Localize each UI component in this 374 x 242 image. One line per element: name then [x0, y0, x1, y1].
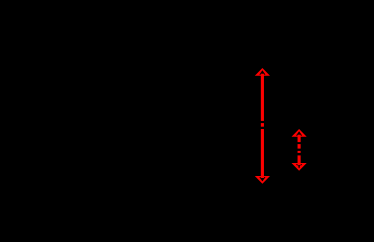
dimension arrow 2 (short, right)	[292, 129, 307, 171]
arrowhead bottom (down)	[292, 163, 307, 171]
wire: middle dash segment	[261, 123, 264, 127]
arrowhead top (up)	[255, 68, 270, 76]
red infill wedges inside bottom arrowhead	[296, 165, 302, 168]
arrowhead bottom (down)	[255, 176, 270, 184]
wire: lower solid shaft segment	[298, 155, 301, 165]
wire: upper solid shaft segment	[261, 74, 264, 121]
wire: dot segment	[298, 151, 301, 153]
dimension arrow 1 (long, left)	[255, 68, 270, 184]
wire: lower solid shaft segment	[261, 129, 264, 178]
arrowhead top (up)	[292, 129, 307, 137]
wire: dash segment	[298, 144, 301, 149]
wire: upper solid shaft segment	[298, 135, 301, 142]
